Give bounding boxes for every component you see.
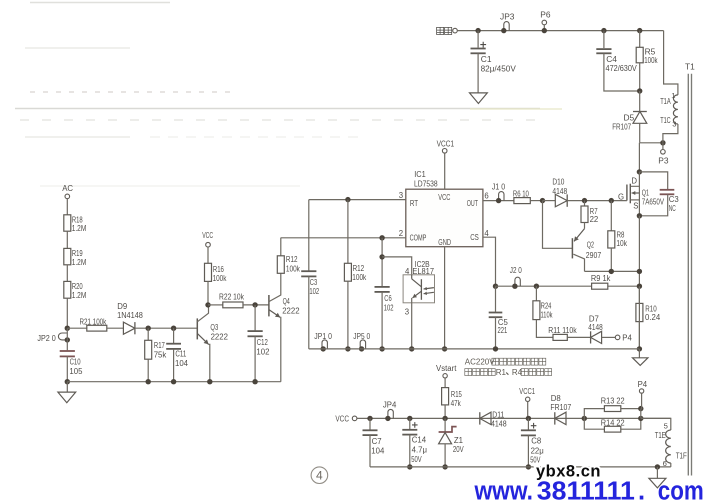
node VCC (left) [202, 231, 213, 263]
svg-text:CS: CS [470, 232, 479, 242]
svg-text:2222: 2222 [282, 306, 299, 315]
wire COMP pin 2 rail [281, 237, 406, 239]
jumper JP1 0 [314, 331, 332, 352]
svg-text:www.3811111.com: www.3811111.com [474, 477, 704, 502]
svg-text:P4: P4 [622, 334, 632, 343]
resistor R17 75k [145, 326, 167, 385]
svg-text:JP3: JP3 [500, 11, 515, 21]
resistor R20 1.2M [64, 281, 86, 328]
resistor R24 110k [533, 284, 553, 338]
node VCC1 (bottom) [519, 387, 535, 421]
svg-text:100k: 100k [352, 273, 366, 282]
svg-text:472/630V: 472/630V [606, 63, 638, 73]
svg-text:JP5 0: JP5 0 [353, 331, 370, 341]
svg-text:110k: 110k [541, 310, 553, 319]
svg-text:D: D [631, 176, 637, 185]
capacitor C4 472/630V [596, 28, 639, 91]
capacitor C1 82u/450V [471, 28, 517, 93]
svg-text:1N4148: 1N4148 [117, 311, 143, 320]
svg-text:JP4: JP4 [383, 401, 397, 410]
wire CS pin 4 to current-sense rail [483, 237, 498, 289]
svg-text:20V: 20V [453, 445, 464, 454]
wire left ground rail [67, 381, 280, 383]
svg-text:Q3: Q3 [210, 323, 218, 332]
svg-text:R17: R17 [154, 341, 165, 350]
terminal P4 (output) [638, 380, 648, 418]
svg-text:1.2M: 1.2M [72, 224, 87, 233]
svg-text:C12: C12 [257, 338, 268, 347]
resistors R13/R14 22 parallel pair [582, 396, 644, 432]
wire Q2 collector rail [585, 269, 643, 274]
svg-text:102: 102 [384, 303, 394, 312]
wire C3-102 branch vertical [308, 200, 310, 271]
svg-text:T1F: T1F [676, 451, 687, 460]
capacitor C3 102 [301, 271, 319, 349]
svg-text:82μ/450V: 82μ/450V [481, 64, 517, 74]
capacitor C6 102 [375, 235, 394, 351]
svg-text:R1: R1 [496, 368, 507, 377]
svg-text:100k: 100k [213, 274, 227, 283]
svg-text:C7: C7 [372, 437, 382, 446]
svg-text:1: 1 [671, 91, 675, 100]
svg-text:R10: R10 [645, 304, 657, 313]
diode D5 FR107 [612, 88, 647, 143]
resistor R5 100k [636, 28, 658, 91]
svg-text:R12: R12 [353, 264, 365, 273]
svg-text:LD7538: LD7538 [414, 179, 438, 189]
node R10 top [637, 284, 642, 289]
svg-text:104: 104 [175, 359, 189, 368]
svg-text:1.2M: 1.2M [72, 291, 87, 300]
optocoupler IC2B EL817 [379, 254, 434, 351]
svg-text:J1 0: J1 0 [492, 182, 505, 192]
svg-text:JP2 0: JP2 0 [37, 334, 56, 343]
svg-text:4148: 4148 [552, 186, 567, 196]
node 全桥 (full-bridge input terminal) [437, 27, 458, 34]
node VCC1 above IC1 [437, 139, 455, 190]
capacitor C11 104 [166, 326, 188, 385]
svg-text:VCC1: VCC1 [437, 139, 455, 149]
node divider tap [65, 326, 87, 331]
resistor R11 110k [548, 326, 590, 341]
watermark www.3811111.com [474, 477, 704, 502]
svg-text:105: 105 [69, 367, 83, 376]
svg-text:C6: C6 [384, 294, 391, 303]
svg-text:0.24: 0.24 [645, 313, 661, 322]
resistor R16 100k [205, 263, 227, 305]
op-amp/controller IC1 LD7538 [399, 169, 490, 247]
jumper JP4 [383, 401, 397, 421]
resistor R7 22 [581, 198, 598, 224]
svg-text:FR107: FR107 [612, 122, 631, 132]
svg-text:4.7μ: 4.7μ [412, 446, 427, 455]
resistor R10 0.24 [636, 286, 661, 349]
resistor R18 1.2M [64, 215, 86, 249]
wire D5 node down to Q1 drain [638, 143, 640, 172]
svg-text:D8: D8 [551, 394, 561, 403]
diode D10 4148 [540, 177, 627, 207]
svg-text:P4: P4 [638, 380, 648, 389]
transistor Q4 2222 (NPN) [269, 273, 300, 381]
svg-text:S: S [633, 202, 638, 211]
svg-text:C3: C3 [310, 278, 317, 287]
svg-text:D11: D11 [492, 410, 504, 419]
svg-text:4: 4 [316, 469, 323, 483]
svg-text:C14: C14 [412, 435, 427, 444]
svg-text:6: 6 [484, 191, 488, 200]
svg-text:OUT: OUT [467, 198, 478, 208]
node VCC (bottom rail) [335, 415, 357, 424]
svg-text:102: 102 [309, 287, 319, 296]
svg-text:JP1 0: JP1 0 [314, 331, 332, 341]
svg-text:AC220V: AC220V [465, 358, 495, 367]
svg-text:100k: 100k [644, 55, 658, 65]
resistor R8 10k [608, 198, 627, 271]
wire middle ground bus [309, 348, 640, 350]
svg-text:GND: GND [438, 237, 451, 247]
svg-text:50V: 50V [411, 455, 422, 464]
svg-text:T1A: T1A [660, 97, 671, 106]
svg-text:T1E: T1E [655, 431, 666, 440]
svg-text:10k: 10k [616, 239, 627, 248]
capacitor C5 221 [489, 286, 509, 351]
wire GND pin down to bus [442, 247, 447, 352]
wire bottom ground rail [370, 466, 671, 468]
svg-text:75k: 75k [154, 350, 167, 359]
jumper J2 0 [510, 265, 522, 289]
transformer primary winding T1A/T1C pins 1,3 [660, 91, 678, 143]
svg-text:VCC1: VCC1 [519, 387, 535, 396]
svg-text:VCC: VCC [438, 192, 450, 202]
svg-text:3: 3 [405, 307, 409, 316]
svg-text:5: 5 [664, 421, 668, 430]
svg-text:47k: 47k [451, 399, 461, 408]
ground below C1 [470, 93, 488, 104]
svg-text:R16: R16 [213, 265, 224, 274]
svg-text:R22 10k: R22 10k [219, 293, 244, 302]
svg-text:7A650V: 7A650V [642, 198, 665, 207]
transistor Q3 2222 (NPN) [197, 305, 228, 385]
svg-text:R13 22: R13 22 [601, 396, 625, 405]
svg-text:R9 1k: R9 1k [591, 273, 611, 283]
svg-text:C11: C11 [175, 350, 186, 359]
resistor R12 100k (middle) [344, 197, 366, 352]
svg-text:AC: AC [62, 184, 73, 193]
transistor Q2 2907 (PNP) [543, 201, 602, 272]
svg-text:100k: 100k [286, 264, 300, 273]
svg-text:Q2: Q2 [587, 241, 594, 250]
diode D11 4148 [480, 410, 507, 428]
svg-text:Q4: Q4 [283, 297, 291, 306]
svg-text:4148: 4148 [491, 419, 507, 428]
svg-text:J2 0: J2 0 [510, 265, 522, 275]
svg-text:104: 104 [371, 446, 385, 455]
svg-text:FR107: FR107 [550, 403, 571, 412]
svg-text:C8: C8 [531, 437, 541, 446]
svg-text:COMP: COMP [410, 232, 427, 242]
jumper J1 0 [483, 182, 514, 204]
svg-text:R20: R20 [72, 282, 83, 291]
node Vstart [436, 364, 457, 388]
svg-text:P3: P3 [658, 155, 669, 165]
svg-text:3: 3 [399, 191, 403, 200]
jumper JP2 0 [37, 328, 70, 350]
svg-text:Vstart: Vstart [436, 364, 457, 373]
zener Z1 20V [439, 416, 465, 470]
svg-text:R11 110k: R11 110k [548, 326, 576, 335]
resistor R6 10 [513, 189, 543, 204]
svg-text:R19: R19 [72, 249, 83, 258]
svg-text:VCC: VCC [335, 415, 349, 424]
resistor R19 1.2M [64, 248, 86, 281]
resistor R22 10k [205, 293, 269, 308]
wire top rail to transformer primary [664, 31, 678, 95]
annotation AC220V note line1 [465, 358, 546, 367]
mosfet Q1 7A650V [618, 169, 665, 216]
terminal P3 [658, 140, 669, 165]
diode D8 FR107 [550, 394, 571, 424]
capacitor C8 22u 50V [521, 418, 544, 469]
svg-text:Z1: Z1 [454, 436, 463, 445]
page number circled 4 [311, 467, 328, 484]
resistor R15 47k [442, 388, 463, 419]
capacitor C14 4.7u 50V [402, 416, 427, 470]
resistor R12 100k (left) [277, 238, 300, 274]
svg-text:T1C: T1C [660, 116, 671, 125]
svg-text:2907: 2907 [586, 251, 601, 260]
wire top rail [457, 30, 663, 32]
wire Q1 source down [637, 213, 642, 349]
svg-text:3: 3 [672, 120, 676, 129]
svg-text:22μ: 22μ [531, 447, 544, 456]
svg-text:1.2M: 1.2M [72, 258, 87, 267]
watermark ybx8.cn [536, 463, 601, 481]
svg-text:RT: RT [410, 198, 418, 208]
jumper JP5 0 [353, 331, 370, 352]
wire drain node to transformer pin 3 [640, 142, 663, 144]
jumper JP3 [500, 11, 515, 33]
svg-text:2: 2 [399, 229, 403, 238]
svg-text:R12: R12 [286, 255, 298, 264]
capacitor C10 105 [60, 351, 83, 382]
resistor R21 100k [80, 317, 124, 331]
svg-text:221: 221 [498, 326, 508, 335]
svg-text:P6: P6 [540, 10, 551, 20]
ground bottom right [649, 464, 666, 488]
svg-text:T1: T1 [685, 61, 695, 71]
svg-text:IC1: IC1 [414, 169, 426, 179]
capacitor C3 NC (snubber) [639, 172, 678, 216]
annotation note line2 [465, 368, 552, 377]
svg-text:4148: 4148 [588, 323, 602, 332]
terminal AC [62, 184, 73, 215]
capacitor C12 102 [248, 302, 270, 384]
svg-text:Q1: Q1 [642, 188, 649, 197]
svg-text:22: 22 [590, 215, 599, 224]
svg-text:R24: R24 [541, 302, 552, 311]
svg-text:C10: C10 [70, 357, 82, 366]
capacitor C7 104 [363, 416, 385, 467]
svg-text:D9: D9 [117, 302, 127, 311]
diode D7 4148 [588, 314, 615, 343]
diode D9 1N4148 [117, 302, 197, 334]
wire bottom VCC rail [357, 417, 671, 419]
svg-text:C3: C3 [669, 195, 679, 204]
svg-text:2222: 2222 [211, 333, 228, 342]
wire current-sense rail [496, 285, 640, 287]
terminal P4 (sense) [615, 334, 632, 343]
ground below R10 [633, 346, 648, 365]
svg-text:NC: NC [669, 204, 676, 213]
svg-text:102: 102 [256, 347, 269, 356]
terminal P6 [540, 10, 551, 34]
svg-text:R15: R15 [451, 390, 463, 399]
transformer aux winding T1E/T1F pins 5,6 [641, 418, 687, 468]
transformer core [688, 74, 691, 476]
svg-text:VCC: VCC [202, 231, 213, 240]
wire RT pin 3 rail [309, 199, 406, 201]
resistor R9 1k [591, 273, 611, 289]
ground left section [58, 379, 76, 403]
